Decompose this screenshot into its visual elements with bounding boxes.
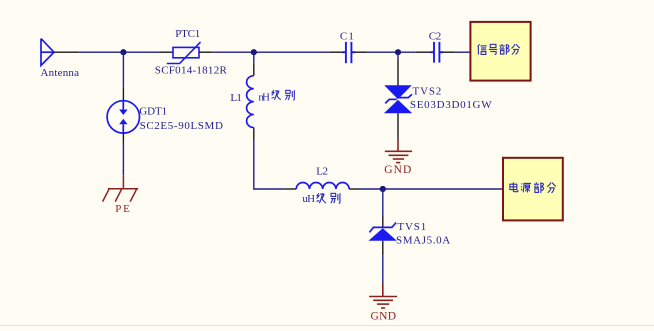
node junction GDT <box>120 49 126 55</box>
wire TVS2 stub <box>397 52 399 59</box>
label 电源部分 <box>510 182 556 193</box>
svg-text:PTC1: PTC1 <box>175 28 200 40</box>
svg-text:L1: L1 <box>230 92 242 104</box>
pin L1 top <box>253 63 255 75</box>
wire PTC to C1 <box>213 51 330 53</box>
wire TVS1 to GND <box>382 255 384 283</box>
svg-text:C1: C1 <box>340 31 354 43</box>
pin TVS1 bottom <box>382 241 384 255</box>
svg-text:nH: nH <box>258 91 270 103</box>
inductor L2 <box>296 182 349 189</box>
pin TVS2 bottom <box>397 113 399 140</box>
pin TVS2 top <box>397 59 399 86</box>
wire antenna to PTC <box>79 51 159 53</box>
svg-text:L2: L2 <box>316 165 328 177</box>
diode TVS1 <box>369 223 397 241</box>
svg-text:GND: GND <box>371 310 397 322</box>
resistor PTC1 <box>167 42 201 63</box>
wire junction GDT down <box>122 52 124 87</box>
pin TVS1 top <box>382 215 384 227</box>
svg-text:TVS1: TVS1 <box>397 221 426 233</box>
inductor L1 <box>247 76 254 128</box>
svg-text:TVS2: TVS2 <box>413 86 442 98</box>
pin L2 left <box>283 188 296 190</box>
svg-text:Antenna: Antenna <box>41 67 80 79</box>
sheet bottom edge <box>0 325 654 326</box>
capacitor C1 <box>330 51 343 53</box>
svg-text:SE03D3D01GW: SE03D3D01GW <box>410 99 492 111</box>
node junction TVS1 <box>380 186 386 192</box>
wire TVS1 stub <box>382 189 384 215</box>
pin PTC right <box>199 51 213 53</box>
power box <box>503 158 563 221</box>
node junction TVS2 <box>395 49 401 55</box>
diode TVS2 <box>384 85 412 113</box>
svg-text:SC2E5-90LSMD: SC2E5-90LSMD <box>140 120 223 132</box>
ground GND TVS2 <box>385 140 412 163</box>
pin GDT top <box>122 88 124 101</box>
svg-text:SMAJ5.0A: SMAJ5.0A <box>396 235 450 247</box>
svg-text:SCF014-1812R: SCF014-1812R <box>155 65 228 77</box>
wire L2 to power box <box>361 188 504 190</box>
wire C1 to junction <box>367 51 415 53</box>
svg-text:PE: PE <box>115 203 130 215</box>
pin L2 right <box>349 188 360 190</box>
node junction L1 <box>251 49 257 55</box>
capacitor C2 <box>416 51 431 53</box>
pin antenna <box>54 51 79 53</box>
ground PE <box>103 175 139 201</box>
antenna symbol <box>41 39 54 66</box>
wire GDT to PE <box>122 143 124 175</box>
wire L1 top stub <box>253 52 255 63</box>
pin L1 bottom <box>253 128 255 141</box>
svg-text:GND: GND <box>384 164 411 176</box>
pin PTC left <box>160 51 174 53</box>
label 信号部分 <box>478 44 520 55</box>
gas discharge tube GDT1 <box>107 101 139 133</box>
wire C2 to signal box <box>456 51 471 53</box>
svg-text:GDT1: GDT1 <box>139 106 167 118</box>
svg-text:C2: C2 <box>429 31 442 43</box>
svg-text:uH: uH <box>302 193 315 205</box>
signal box <box>470 22 530 81</box>
pin GDT bottom <box>122 133 124 144</box>
wire L1 to L2 corner <box>254 140 283 189</box>
ground GND TVS1 <box>369 284 397 309</box>
